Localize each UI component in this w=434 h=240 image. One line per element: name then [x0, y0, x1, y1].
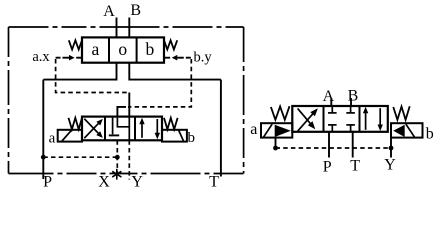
- svg-text:B: B: [348, 88, 359, 105]
- svg-text:P: P: [43, 173, 52, 190]
- svg-text:T: T: [209, 173, 219, 190]
- svg-text:b: b: [426, 126, 434, 143]
- svg-text:a: a: [49, 131, 56, 147]
- svg-text:P: P: [323, 158, 332, 175]
- svg-text:a: a: [250, 121, 257, 138]
- svg-text:A: A: [103, 3, 115, 20]
- svg-text:a.x: a.x: [32, 49, 50, 65]
- svg-text:a: a: [92, 39, 100, 59]
- svg-text:b.y: b.y: [193, 50, 212, 66]
- svg-text:b: b: [188, 130, 196, 146]
- svg-text:X: X: [98, 173, 110, 190]
- svg-text:o: o: [118, 39, 127, 59]
- svg-text:T: T: [350, 158, 360, 175]
- svg-text:Y: Y: [384, 156, 396, 173]
- svg-text:Y: Y: [131, 173, 143, 190]
- svg-text:b: b: [146, 39, 155, 59]
- svg-text:B: B: [130, 2, 141, 19]
- svg-text:A: A: [323, 88, 335, 105]
